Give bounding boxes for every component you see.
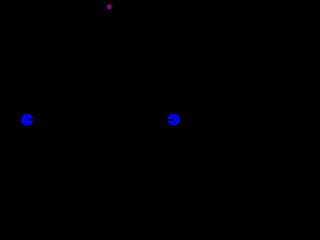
right blue unit (circle) — [168, 113, 180, 125]
right unit: top mark — [173, 113, 175, 118]
left unit: top mark — [26, 114, 28, 119]
right unit: bottom mark — [173, 121, 175, 123]
left unit: bottom mark — [26, 123, 28, 126]
left unit: right mark — [28, 119, 33, 121]
right unit: left mark — [168, 119, 173, 121]
left blue unit (circle) — [21, 114, 33, 127]
purple square sprite (top center) — [107, 5, 111, 9]
